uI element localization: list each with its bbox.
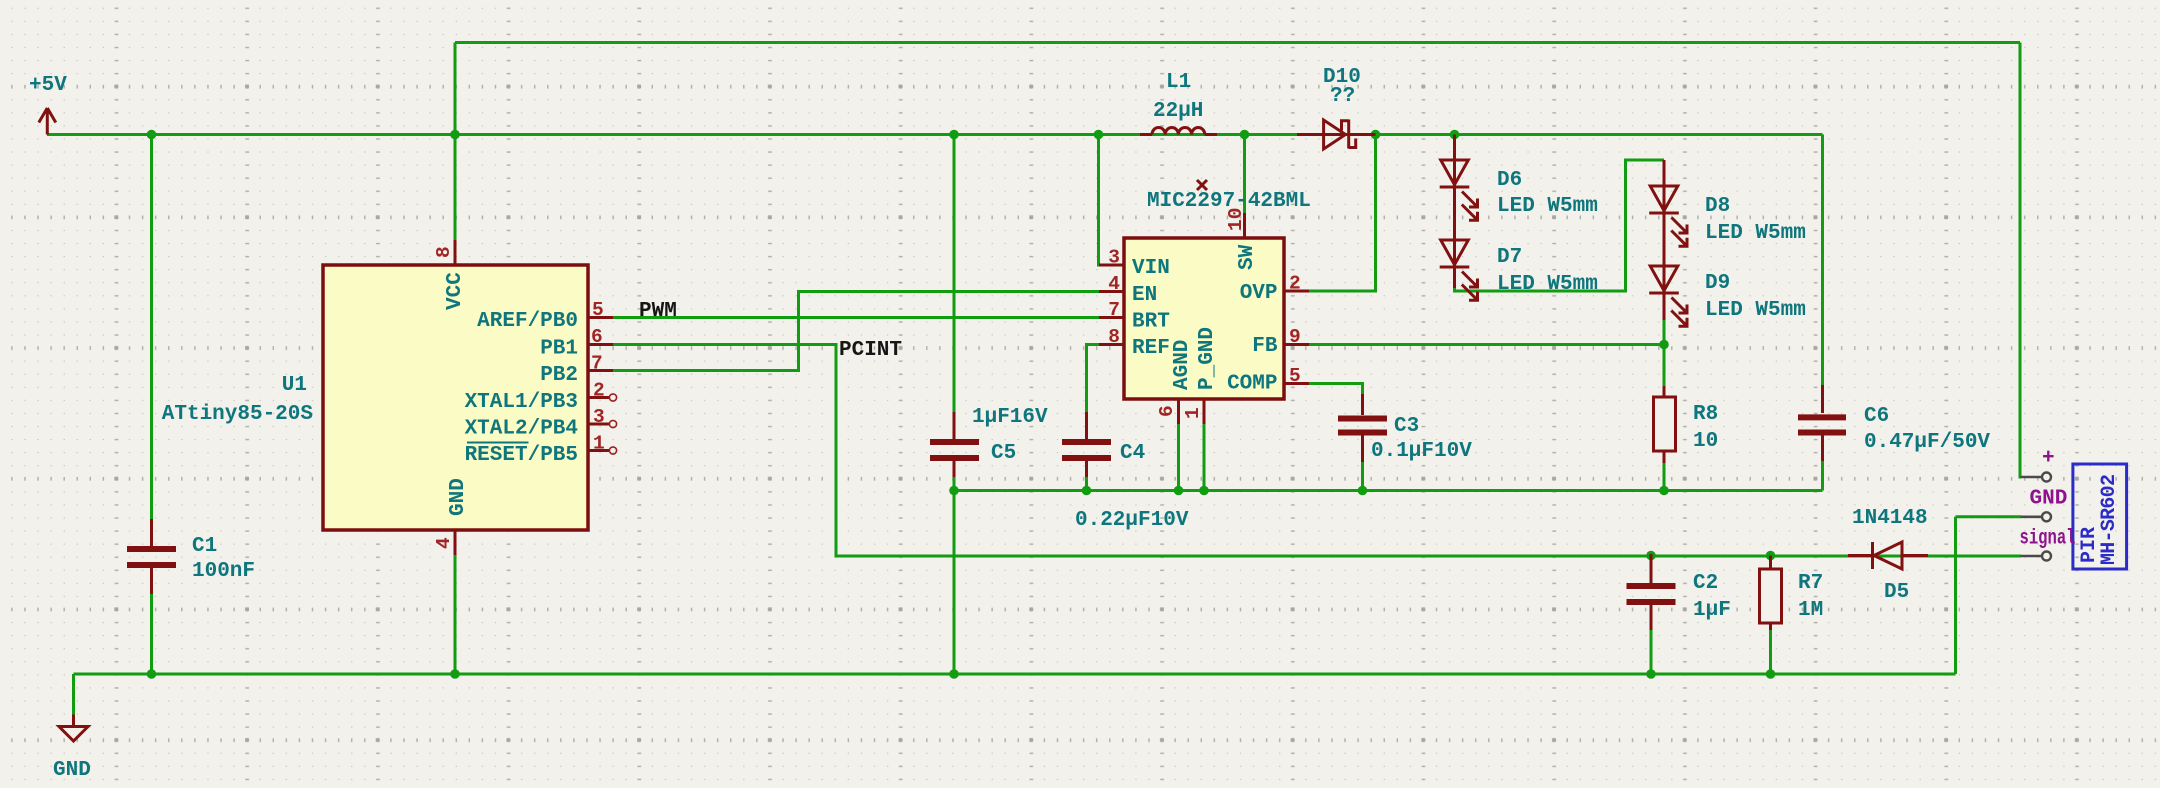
svg-text:D6: D6 xyxy=(1497,169,1522,192)
PIR module MH-SR602 sheet xyxy=(2073,464,2127,569)
U2 pin 4 EN xyxy=(1099,273,1157,307)
svg-text:C6: C6 xyxy=(1864,405,1889,428)
svg-text:LED W5mm: LED W5mm xyxy=(1497,195,1598,218)
LED D6 xyxy=(1440,135,1598,289)
wire EN to PB2 xyxy=(612,292,1101,371)
svg-text:R8: R8 xyxy=(1693,403,1718,426)
wire D9 to R8 node xyxy=(1663,318,1666,398)
U2 pin 5 COMP xyxy=(1227,365,1309,396)
wire P_GND pin drop xyxy=(1203,420,1206,491)
svg-text:??: ?? xyxy=(1330,85,1355,108)
svg-text:C3: C3 xyxy=(1394,415,1419,438)
svg-text:R7: R7 xyxy=(1798,572,1823,595)
wire C4 bottom to agnd bus xyxy=(1085,461,1088,491)
svg-text:4: 4 xyxy=(433,537,455,549)
svg-text:XTAL2/PB4: XTAL2/PB4 xyxy=(465,418,578,441)
svg-text:PB1: PB1 xyxy=(540,338,578,361)
svg-text:RESET/PB5: RESET/PB5 xyxy=(465,444,578,467)
capacitor C2 xyxy=(1627,554,1731,630)
svg-text:9: 9 xyxy=(1289,326,1301,348)
svg-text:10: 10 xyxy=(1693,430,1718,453)
U1 pin 8 VCC xyxy=(433,240,467,310)
LED D8 xyxy=(1649,160,1806,320)
wire REF to C4 xyxy=(1087,345,1102,415)
svg-text:6: 6 xyxy=(1156,405,1178,417)
power flag +5V xyxy=(29,74,67,135)
junction agnd at C3 xyxy=(1358,486,1368,496)
resistor R8 xyxy=(1654,345,1719,464)
svg-text:8: 8 xyxy=(433,246,455,258)
svg-text:VCC: VCC xyxy=(444,272,467,310)
svg-text:100nF: 100nF xyxy=(192,560,255,583)
svg-text:4: 4 xyxy=(1108,273,1120,295)
junction agnd at C5 xyxy=(949,486,959,496)
svg-text:PWM: PWM xyxy=(639,300,677,323)
svg-text:1: 1 xyxy=(1182,407,1204,419)
svg-text:0.47µF/50V: 0.47µF/50V xyxy=(1864,431,1990,454)
U1 pin 7 PB2 xyxy=(540,353,613,388)
op-amp U2 MIC2297-42BML body xyxy=(1124,180,1311,399)
wire PWM PB0 to BRT xyxy=(612,316,1101,319)
svg-text:PCINT: PCINT xyxy=(839,339,902,362)
junction FB at R8 top xyxy=(1659,340,1669,350)
svg-text:L1: L1 xyxy=(1166,71,1191,94)
svg-text:7: 7 xyxy=(1108,299,1120,321)
wire PIR plus pin xyxy=(2020,43,2021,478)
svg-text:ATtiny85-20S: ATtiny85-20S xyxy=(162,403,313,426)
junction agnd at P_GND pin xyxy=(1199,486,1209,496)
svg-text:5: 5 xyxy=(592,299,604,321)
svg-text:C5: C5 xyxy=(991,442,1016,465)
wire C5 bottom to gnd bus xyxy=(953,461,956,674)
PIR pin + xyxy=(2021,447,2055,482)
junction signal at C2 xyxy=(1646,551,1656,561)
U2 pin 6 AGND xyxy=(1156,340,1194,424)
svg-text:1µF: 1µF xyxy=(1693,599,1731,622)
capacitor C3 xyxy=(1338,394,1472,463)
svg-text:XTAL1/PB3: XTAL1/PB3 xyxy=(465,391,578,414)
wire OVP to D10 node xyxy=(1307,135,1376,292)
svg-text:22µH: 22µH xyxy=(1153,100,1203,123)
PIR pin GND xyxy=(2021,488,2068,522)
svg-text:OVP: OVP xyxy=(1240,282,1278,305)
wire C6 bottom to agnd bus xyxy=(1821,459,1824,491)
svg-text:SW: SW xyxy=(1236,244,1259,270)
wire PIR gnd drop x=1955.5 xyxy=(1954,517,1957,674)
wire R7 bottom to gnd bus xyxy=(1769,628,1772,674)
wire FB to R8 top xyxy=(1307,343,1664,346)
U1 pin 1 RESET/PB5 xyxy=(465,433,617,468)
svg-text:U1: U1 xyxy=(282,374,307,397)
junction +5V at C5 xyxy=(949,130,959,140)
svg-text:VIN: VIN xyxy=(1132,257,1170,280)
PIR pin signal xyxy=(2020,528,2076,561)
wire D7 to D8 link xyxy=(1455,160,1665,291)
svg-text:AREF/PB0: AREF/PB0 xyxy=(477,310,578,333)
U1 pin 2 XTAL1/PB3 xyxy=(465,380,617,415)
svg-text:GND: GND xyxy=(447,478,470,516)
inductor L1 22µH xyxy=(1140,71,1217,135)
capacitor C1 xyxy=(127,519,255,594)
svg-text:MH-SR602: MH-SR602 xyxy=(2098,474,2121,565)
capacitor C5 xyxy=(930,406,1048,477)
wire C1 to gnd bus xyxy=(150,592,153,674)
U1 pin 6 PB1 xyxy=(540,326,613,361)
junction signal at R7 xyxy=(1766,551,1776,561)
U1 pin 4 GND xyxy=(433,478,470,555)
svg-text:LED W5mm: LED W5mm xyxy=(1705,222,1806,245)
wire C2 top stub xyxy=(1650,556,1653,582)
junction +5V at C1 xyxy=(147,130,157,140)
svg-text:2: 2 xyxy=(593,380,605,402)
wire COMP to C3 xyxy=(1307,384,1363,397)
wire +5V rail y=134 xyxy=(47,133,1823,136)
svg-text:GND: GND xyxy=(2030,488,2068,511)
wire C1 branch x=151 xyxy=(150,135,153,522)
junction agnd at AGND pin xyxy=(1174,486,1184,496)
U2 pin 9 FB xyxy=(1252,326,1309,358)
U1 pin 5 AREF/PB0 xyxy=(477,299,613,333)
svg-text:8: 8 xyxy=(1108,326,1120,348)
resistor R7 xyxy=(1760,556,1824,631)
diode D5 1N4148 xyxy=(1848,507,1928,604)
junction gnd bus at C5 xyxy=(949,669,959,679)
ground xyxy=(53,715,91,783)
U2 pin 3 VIN xyxy=(1099,247,1170,281)
junction +5V at VIN xyxy=(1094,130,1104,140)
junction agnd at R8 xyxy=(1659,486,1669,496)
svg-text:C4: C4 xyxy=(1120,442,1145,465)
wire AGND pin drop xyxy=(1177,420,1180,491)
svg-text:1N4148: 1N4148 xyxy=(1852,507,1928,530)
junction +5V at VCC xyxy=(450,130,460,140)
junction D10 cathode xyxy=(1371,130,1381,140)
wire U1 gnd pin to bus xyxy=(454,554,457,674)
U2 pin 1 P_GND xyxy=(1182,327,1219,424)
wire PIR gnd pin xyxy=(1956,515,2022,518)
wire gnd bus y=674 xyxy=(74,673,1956,676)
svg-text:REF: REF xyxy=(1132,337,1170,360)
U2 pin 7 BRT xyxy=(1099,299,1170,334)
svg-text:10: 10 xyxy=(1225,208,1247,231)
svg-text:signal: signal xyxy=(2020,528,2076,551)
wire SW pin riser x=1244.5 xyxy=(1243,135,1246,216)
svg-text:0.1µF10V: 0.1µF10V xyxy=(1371,440,1472,463)
U2 pin 8 REF xyxy=(1099,326,1170,360)
svg-text:GND: GND xyxy=(53,759,91,782)
U2 pin 10 SW xyxy=(1225,208,1259,270)
svg-text:7: 7 xyxy=(591,353,603,375)
svg-text:+5V: +5V xyxy=(29,74,67,97)
svg-text:D5: D5 xyxy=(1884,581,1909,604)
svg-text:C1: C1 xyxy=(192,535,217,558)
svg-text:3: 3 xyxy=(593,406,605,428)
junction gnd bus at U1 xyxy=(450,669,460,679)
wire agnd bus y=490.5 xyxy=(954,489,1823,492)
wire C3 bottom to agnd bus xyxy=(1361,460,1364,491)
svg-text:BRT: BRT xyxy=(1132,311,1170,334)
svg-text:C2: C2 xyxy=(1693,572,1718,595)
svg-text:P_GND: P_GND xyxy=(1196,327,1219,390)
capacitor C4 xyxy=(1062,412,1189,532)
svg-text:1: 1 xyxy=(593,433,605,455)
U1 pin 3 XTAL2/PB4 xyxy=(465,406,617,441)
wire PCINT PB1 to signal line xyxy=(612,345,2021,557)
wire C5 riser x=954 xyxy=(953,135,956,415)
junction LED D6 anode xyxy=(1450,130,1460,140)
svg-text:LED W5mm: LED W5mm xyxy=(1497,273,1598,296)
junction gnd bus at C2 xyxy=(1646,669,1656,679)
svg-text:+: + xyxy=(2042,447,2055,470)
wire R8 bottom to agnd bus xyxy=(1663,461,1666,491)
svg-text:0.22µF10V: 0.22µF10V xyxy=(1075,509,1189,532)
junction agnd at C4 xyxy=(1082,486,1092,496)
wire gnd symbol drop xyxy=(72,674,75,715)
junction gnd bus at R7 xyxy=(1766,669,1776,679)
capacitor C6 xyxy=(1798,385,1990,461)
svg-text:1M: 1M xyxy=(1798,599,1823,622)
svg-text:5: 5 xyxy=(1289,365,1301,387)
svg-text:LED W5mm: LED W5mm xyxy=(1705,299,1806,322)
svg-text:6: 6 xyxy=(591,326,603,348)
svg-text:D9: D9 xyxy=(1705,272,1730,295)
diode D10 schottky xyxy=(1297,66,1376,149)
U2 pin 2 OVP xyxy=(1240,273,1309,306)
svg-text:PB2: PB2 xyxy=(540,364,578,387)
wire top rail y=42 xyxy=(455,41,2020,44)
wire VCC riser x=455 xyxy=(454,43,457,241)
svg-text:FB: FB xyxy=(1252,335,1278,358)
svg-text:3: 3 xyxy=(1108,247,1120,269)
wire VIN riser x=1098.5 xyxy=(1099,135,1102,266)
svg-text:COMP: COMP xyxy=(1227,373,1277,396)
LED D7 xyxy=(1440,240,1598,300)
wire C6 riser x=1822.5 xyxy=(1821,135,1824,387)
svg-text:2: 2 xyxy=(1289,273,1301,295)
junction gnd bus at C1 xyxy=(147,669,157,679)
svg-text:D7: D7 xyxy=(1497,246,1522,269)
junction +5V at SW xyxy=(1240,130,1250,140)
svg-text:EN: EN xyxy=(1132,284,1157,307)
svg-text:1µF16V: 1µF16V xyxy=(972,406,1048,429)
svg-text:D8: D8 xyxy=(1705,195,1730,218)
svg-text:AGND: AGND xyxy=(1171,340,1194,390)
op-amp U1 ATtiny85-20S body xyxy=(162,265,588,530)
LED D9 xyxy=(1649,266,1806,326)
wire C2 bottom to gnd bus xyxy=(1650,628,1653,674)
